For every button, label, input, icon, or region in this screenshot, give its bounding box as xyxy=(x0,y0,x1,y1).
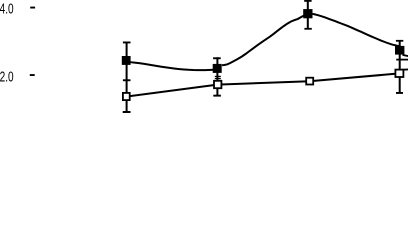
open square marker O4 xyxy=(395,70,403,77)
open square marker O3 xyxy=(306,78,313,85)
error bar cap, point2 bottom (open) xyxy=(213,95,221,97)
error bar vertical line, point 3 filled (x=307.8) xyxy=(307,0,309,29)
series 2 (open squares) straight line xyxy=(126,73,399,96)
error bar cap, point2 open-top xyxy=(215,78,221,79)
error bar cap, point1 bottom (open) xyxy=(123,111,131,113)
svg-text:2.0: 2.0 xyxy=(0,70,14,86)
error bar cap, point3 top (filled, clipped at top edge) xyxy=(304,0,311,2)
error bar cap, point2 top (filled) xyxy=(213,57,221,59)
open square marker O2 xyxy=(214,81,221,88)
series 1 line exiting right edge after P4 xyxy=(403,55,408,56)
filled square marker F4 xyxy=(395,46,404,55)
error bar cap, point3 bottom (filled) xyxy=(304,28,311,30)
open square marker O1 xyxy=(123,93,130,100)
series 1 (filled squares) smooth line, segment P1-P2 xyxy=(127,61,214,70)
series 1 line, segment P3-P4 xyxy=(313,14,400,46)
error bar cap, point4 middle, extends to right edge xyxy=(396,59,408,61)
error bar cap, point1 top (filled) xyxy=(123,42,131,44)
svg-text:4.0: 4.0 xyxy=(0,2,14,18)
series 1 line, segment P2-P3 xyxy=(222,15,308,66)
filled square marker F2 xyxy=(213,64,222,73)
filled square marker F1 xyxy=(122,56,131,65)
error bar vertical line, point 2 (x=217.4) xyxy=(216,57,218,96)
y-axis tick at 4.0 xyxy=(30,7,35,9)
y-axis tick at 2.0 xyxy=(30,74,35,76)
series 2 line exiting right edge after P4 xyxy=(404,68,408,70)
error bar cap, point1 middle (filled bottom / open top) xyxy=(123,79,131,81)
error bar cap, point4 bottom (open) xyxy=(396,92,403,94)
filled square marker F3 xyxy=(303,9,312,18)
error bar vertical line, point 4 (x=399.7) xyxy=(399,40,401,94)
error bar cap, point4 top (filled) xyxy=(396,40,403,42)
error bar vertical line, point 1 (x=126.6) xyxy=(126,42,128,113)
error bar cap, point2 filled-bottom xyxy=(215,76,221,77)
